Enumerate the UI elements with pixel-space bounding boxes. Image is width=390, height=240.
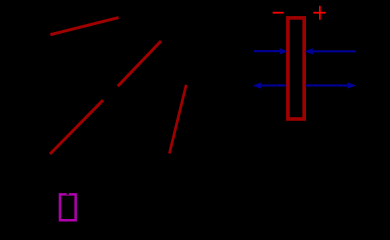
plate rectangle xyxy=(288,18,304,119)
arrow upper-right (points left, into plate) xyxy=(304,48,356,54)
arrow lower-right (points right, outward) xyxy=(305,82,356,88)
arrow upper-left (points right, into plate) xyxy=(254,48,287,54)
plus sign xyxy=(313,12,325,14)
callout line B lower segment xyxy=(50,100,103,154)
callout line A (top-left) xyxy=(50,18,118,35)
minus sign xyxy=(273,12,284,14)
notch on magenta top edge xyxy=(67,193,69,195)
arrow lower-left (points left, outward) xyxy=(253,82,287,88)
callout line B upper segment xyxy=(118,41,161,86)
magenta rectangle xyxy=(60,194,76,220)
callout line D (steep short) xyxy=(169,85,186,154)
